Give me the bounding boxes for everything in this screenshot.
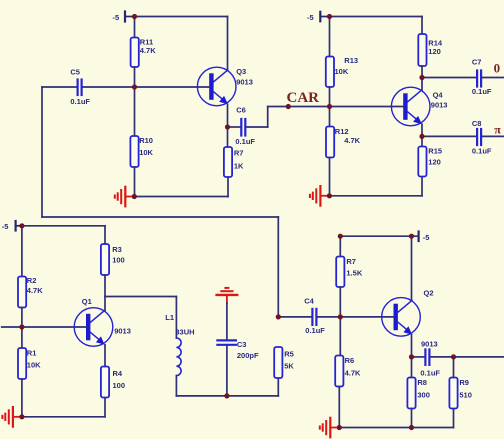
ground top-right (310, 186, 330, 206)
svg-text:5K: 5K (284, 361, 294, 370)
wire Q3 collector drop (227, 17, 229, 71)
wire top rail BL (22, 225, 105, 227)
svg-text:Q3: Q3 (236, 67, 246, 76)
wire C6 up to CAR (267, 107, 269, 128)
wire R13 bottom lead (329, 87, 331, 107)
svg-text:300: 300 (417, 390, 430, 399)
wire tank bottom rail (176, 395, 278, 397)
node C8 (419, 134, 424, 139)
ground above C3 (217, 288, 238, 304)
ground bottom-left (2, 407, 22, 427)
wire R10 top lead (134, 87, 136, 136)
svg-text:C3: C3 (237, 340, 247, 349)
svg-text:0.1uF: 0.1uF (420, 368, 440, 377)
node TR power (327, 14, 332, 19)
svg-text:R12: R12 (335, 127, 349, 136)
resistor R11 4.7K (131, 37, 157, 67)
resistor R14 120 (418, 34, 443, 66)
svg-text:33UH: 33UH (175, 328, 194, 337)
ground bottom-right (320, 418, 340, 438)
transistor Q4 9013 (391, 87, 447, 126)
svg-text:510: 510 (459, 390, 472, 399)
svg-text:π: π (494, 123, 501, 137)
svg-text:9013: 9013 (431, 100, 448, 109)
resistor R4 100 (101, 367, 125, 398)
svg-text:4.7K: 4.7K (344, 136, 360, 145)
svg-text:C5: C5 (70, 68, 80, 77)
node C6 emitter (225, 124, 230, 129)
svg-text:4.7K: 4.7K (345, 369, 361, 378)
svg-text:C4: C4 (304, 297, 314, 306)
node BL ground (19, 414, 24, 419)
node R7 rail BR (338, 234, 343, 239)
svg-text:R8: R8 (417, 378, 427, 387)
node Q3 base (132, 84, 137, 89)
wire R1 bottom lead (21, 379, 23, 417)
svg-text:R4: R4 (113, 369, 123, 378)
svg-text:10K: 10K (335, 67, 349, 76)
node C7 (419, 75, 424, 80)
wire Q1 collector up (104, 297, 106, 311)
wire input stub (2, 326, 22, 328)
wire top rail TL (135, 16, 228, 18)
svg-text:0: 0 (494, 60, 501, 75)
svg-text:0.1uF: 0.1uF (235, 137, 255, 146)
wire R13 top lead (329, 17, 331, 57)
wire Q1 base (22, 326, 87, 328)
svg-text:10K: 10K (27, 360, 41, 369)
node TL power (132, 14, 137, 19)
svg-text:4.7K: 4.7K (27, 286, 43, 295)
node R13 R12 (327, 104, 332, 109)
resistor R1 10K (18, 348, 41, 379)
wire top rail TR (330, 16, 423, 18)
capacitor CE 0.1uF (412, 349, 454, 377)
wire R3 top lead (104, 226, 106, 244)
svg-text:C6: C6 (236, 106, 246, 115)
capacitor C4 0.1uF (278, 297, 340, 336)
capacitor C3 200pF (217, 303, 259, 396)
wire R6 bottom lead (338, 387, 340, 428)
svg-text:R13: R13 (344, 56, 358, 65)
wire Q1 emitter down (104, 345, 106, 367)
svg-text:CAR: CAR (287, 90, 320, 106)
resistor R9 510 (449, 378, 472, 409)
svg-text:1K: 1K (234, 161, 244, 170)
wire R7 bottom to base node (339, 287, 341, 317)
svg-text:9013: 9013 (421, 339, 438, 348)
power -5 top-left (113, 12, 135, 22)
wire R11 top lead (134, 17, 136, 38)
wire TL ground rail (134, 196, 228, 198)
svg-text:L1: L1 (165, 313, 174, 322)
svg-text:4.7K: 4.7K (140, 46, 156, 55)
wire CAR to divider node (288, 106, 329, 108)
svg-text:Q1: Q1 (82, 297, 92, 306)
wire TR ground rail (329, 195, 422, 197)
svg-text:-5: -5 (2, 222, 9, 231)
svg-text:R10: R10 (139, 136, 153, 145)
wire R7 top lead BR (339, 236, 341, 256)
wire feedback loop down to C4 node (277, 217, 279, 317)
node BL power (19, 223, 24, 228)
svg-text:C7: C7 (472, 58, 482, 67)
wire R2 bottom lead (21, 308, 23, 328)
node Q2 emitter (409, 354, 414, 359)
node R8 bottom (409, 425, 414, 430)
wire R12 bottom lead (329, 158, 331, 196)
svg-text:100: 100 (112, 255, 125, 264)
wire R11 bottom lead (134, 67, 136, 87)
wire Q4 emitter down (421, 124, 423, 146)
wire R7 bottom lead (227, 177, 229, 197)
svg-text:120: 120 (428, 47, 441, 56)
svg-text:0.1uF: 0.1uF (305, 326, 325, 335)
wire BR ground rail (339, 427, 453, 429)
capacitor C8 0.1uF (422, 119, 504, 155)
wire R8 bottom lead (411, 409, 413, 428)
svg-text:R3: R3 (112, 245, 122, 254)
svg-text:R5: R5 (284, 349, 294, 358)
wire R4 bottom lead (104, 398, 106, 417)
svg-text:0.1uF: 0.1uF (472, 146, 492, 155)
svg-text:R11: R11 (140, 37, 153, 46)
wire collector to L1 (105, 296, 176, 298)
power -5 top-right (307, 12, 330, 22)
resistor R15 120 (418, 146, 442, 176)
svg-text:Q2: Q2 (424, 288, 434, 297)
wire R10 bottom lead (134, 167, 136, 197)
wire Q3 base (135, 86, 211, 88)
svg-text:1.5K: 1.5K (346, 269, 362, 278)
svg-text:-5: -5 (307, 13, 314, 22)
resistor R3 100 (101, 244, 125, 275)
wire R2 top lead (21, 226, 23, 277)
resistor R12 4.7K (326, 127, 361, 158)
node C3 bottom (224, 393, 229, 398)
transistor Q3 9013 (197, 67, 252, 106)
svg-text:9013: 9013 (236, 77, 253, 86)
wire R15 bottom lead (421, 177, 423, 196)
wire BL ground rail (22, 416, 105, 418)
wire Q4 base (330, 106, 405, 108)
wire Q2 base (340, 316, 394, 318)
node Q1 base (19, 324, 24, 329)
ground top-left (115, 187, 135, 207)
svg-text:0.1uF: 0.1uF (472, 87, 492, 96)
wire R14 bottom to C7 node (421, 66, 423, 90)
wire rail up to R5 (277, 378, 279, 396)
resistor R6 4.7K (335, 356, 361, 387)
wire R3 bottom lead (104, 275, 106, 297)
wire R9 bottom lead (453, 409, 455, 428)
node CAR junction (286, 104, 291, 109)
capacitor C5 0.1uF (42, 68, 135, 106)
resistor R7 1.5K (336, 257, 363, 288)
capacitor C7 0.1uF (422, 58, 504, 96)
svg-text:R1: R1 (27, 348, 37, 357)
wire feedback loop left down (41, 87, 43, 217)
wire Q2 collector up (411, 236, 413, 300)
svg-text:0.1uF: 0.1uF (70, 97, 90, 106)
svg-text:-5: -5 (113, 13, 120, 22)
wire Q2 emitter down (411, 335, 413, 378)
wire feedback loop bottom (42, 216, 278, 218)
svg-text:Q4: Q4 (433, 91, 444, 100)
svg-text:100: 100 (113, 381, 126, 390)
svg-text:R7: R7 (234, 148, 244, 157)
node Q2 collector rail (409, 234, 414, 239)
node TR ground (327, 193, 332, 198)
wire top rail BR (340, 235, 418, 237)
node BR ground (337, 425, 342, 430)
capacitor C6 0.1uF (228, 106, 268, 147)
wire base node to R6 (339, 317, 341, 356)
resistor R7 1K (224, 147, 244, 177)
power -5 bottom-right (419, 232, 430, 242)
power -5 bottom-left (2, 221, 22, 231)
svg-text:R7: R7 (346, 257, 356, 266)
svg-text:R9: R9 (459, 378, 469, 387)
node Q2 base (338, 314, 343, 319)
resistor R8 300 (407, 378, 430, 409)
wire Q3 emitter down (227, 104, 229, 147)
svg-text:C8: C8 (472, 119, 482, 128)
resistor R5 5K (274, 347, 294, 378)
svg-text:R6: R6 (345, 356, 355, 365)
svg-text:120: 120 (428, 157, 441, 166)
svg-text:9013: 9013 (114, 327, 131, 336)
svg-text:-5: -5 (423, 233, 430, 242)
wire R14 top lead (421, 17, 423, 35)
resistor R2 4.7K (18, 276, 43, 307)
svg-text:R15: R15 (428, 146, 442, 155)
wire to CAR node (268, 106, 289, 108)
wire R1 top lead (21, 327, 23, 348)
wire R9 top lead (453, 357, 455, 378)
transistor Q2 9013 (382, 288, 438, 348)
svg-text:200pF: 200pF (237, 351, 259, 360)
wire R12 top lead (329, 107, 331, 127)
transistor Q1 9013 (74, 297, 131, 346)
resistor R13 10K (326, 56, 358, 87)
node TL ground (132, 194, 137, 199)
svg-text:10K: 10K (139, 148, 153, 157)
node output R9 (451, 354, 456, 359)
wire output right (454, 356, 504, 358)
inductor L1 33UH (165, 297, 194, 396)
svg-text:R2: R2 (27, 276, 37, 285)
node C4 R5 (276, 314, 281, 319)
resistor R10 10K (130, 136, 153, 167)
